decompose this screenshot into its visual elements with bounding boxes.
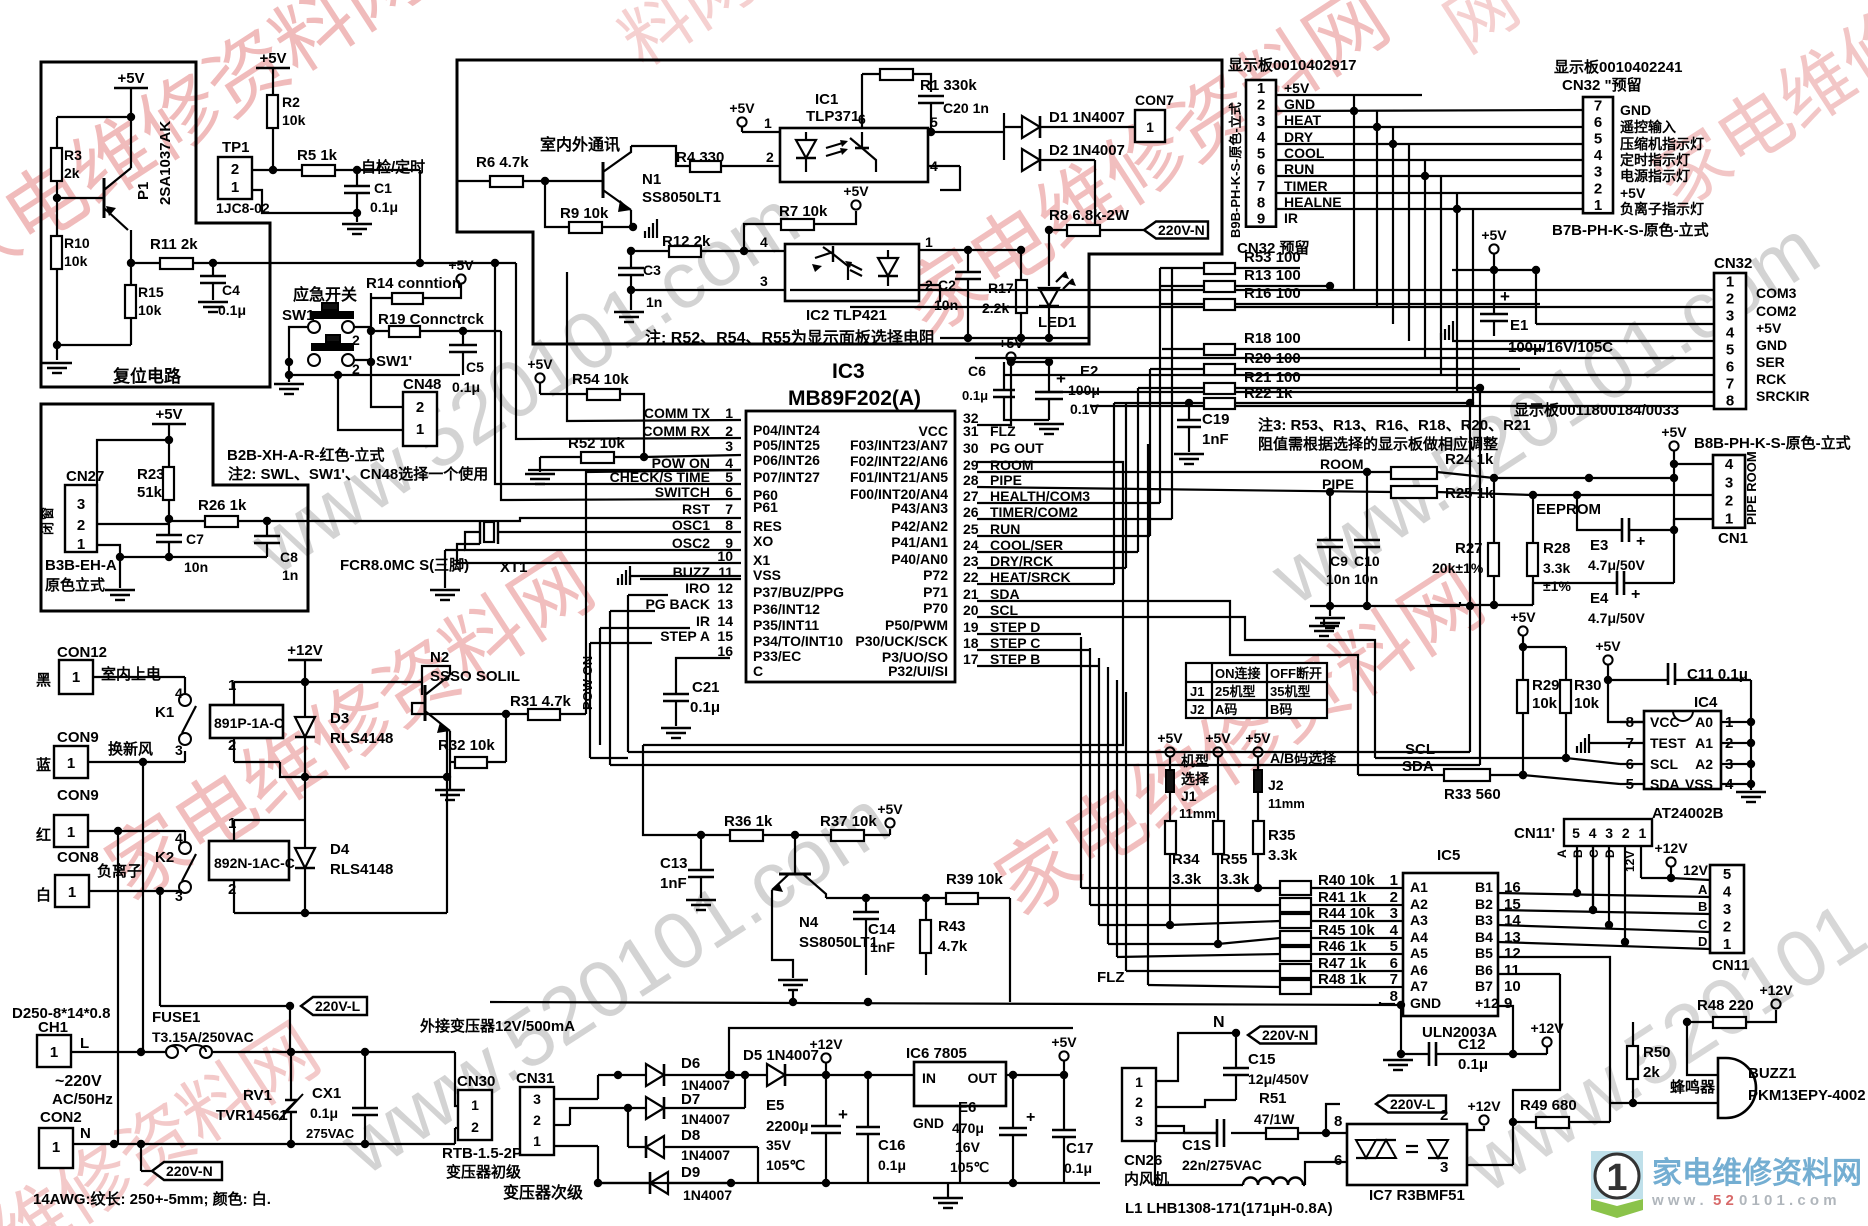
wire CN32 rows [790,289,1714,291]
resistor R1 330k [862,73,880,75]
svg-text:P40/AN0: P40/AN0 [891,551,948,567]
svg-text:J2: J2 [1190,702,1204,717]
svg-text:25: 25 [963,521,979,537]
inductor L1 [1154,1141,1156,1185]
svg-text:IC2 TLP421: IC2 TLP421 [806,307,887,324]
svg-text:CN30: CN30 [457,1073,495,1090]
svg-text:P43/AN3: P43/AN3 [891,500,948,516]
buzzer BUZZ1 [1718,1058,1756,1118]
svg-text:AT24002B: AT24002B [1652,805,1724,822]
crystal XT1 [479,520,481,544]
logo site [1591,1151,1643,1199]
svg-text:FUSE1: FUSE1 [152,1009,200,1026]
power +5V (VCC) [1006,352,1015,361]
svg-text:A: A [1698,882,1708,897]
wire R41 feed [1090,904,1280,906]
svg-text:2: 2 [725,423,733,439]
wire N row [73,1143,455,1145]
wire B2 row [1498,910,1710,914]
svg-text:+5V: +5V [1620,185,1646,201]
comm block outline [457,60,1222,344]
svg-text:220V-L: 220V-L [1390,1096,1436,1112]
svg-text:RUN: RUN [990,521,1020,537]
svg-text:P72: P72 [923,567,948,583]
svg-text:6: 6 [1334,1152,1342,1169]
wire emitter [130,230,132,285]
svg-text:2: 2 [231,161,239,178]
svg-text:3: 3 [1594,164,1602,181]
svg-text:10n: 10n [184,559,208,575]
svg-text:+5V: +5V [259,50,286,67]
resistor R18 100 [1204,344,1235,355]
svg-text:3.3k: 3.3k [1543,560,1570,576]
svg-text:28: 28 [963,472,979,488]
svg-text:AC/50Hz: AC/50Hz [52,1091,113,1108]
wire N2 emitter to gnd [449,731,451,762]
svg-text:1: 1 [1257,80,1265,97]
diode D9 1N4007 [650,1172,668,1194]
svg-text:220V-N: 220V-N [1158,222,1205,238]
svg-text:STEP D: STEP D [990,619,1040,635]
svg-text:A1: A1 [1695,735,1713,751]
svg-text:1: 1 [1135,1074,1143,1090]
resistor R34 3.3k [1165,821,1176,854]
svg-text:8: 8 [725,517,733,533]
svg-text:CON2: CON2 [40,1109,82,1126]
svg-text:R7 10k: R7 10k [779,203,828,220]
resistor R21 100 [1204,383,1235,394]
svg-text:D9: D9 [681,1164,700,1181]
svg-text:3: 3 [1605,825,1613,841]
svg-text:R51: R51 [1259,1090,1287,1107]
svg-text:显示板0010402241: 显示板0010402241 [1554,58,1682,76]
svg-text:GND: GND [1620,102,1651,118]
svg-text:R30: R30 [1574,677,1602,694]
svg-text:R20 100: R20 100 [1244,350,1301,367]
resistor R33 560 [1444,769,1490,781]
svg-text:0.1μ: 0.1μ [962,388,988,403]
svg-text:1: 1 [1146,119,1154,135]
wire R49 to triac [1467,1164,1513,1166]
svg-text:3: 3 [1726,308,1734,325]
power +5V (R14) [456,274,465,283]
wire L row [71,1051,166,1053]
svg-text:11: 11 [718,564,733,580]
svg-text:0 1 0 1 . c o m: 0 1 0 1 . c o m [1739,1192,1837,1209]
svg-text:R10: R10 [64,235,90,251]
resistor R15 [125,285,136,318]
svg-text:1: 1 [50,1044,58,1061]
svg-text:892N-1AC-C: 892N-1AC-C [214,855,295,871]
svg-text:2: 2 [1723,919,1731,936]
connector B9B (9pin) [1246,80,1276,227]
svg-text:9: 9 [1257,211,1265,228]
svg-text:220V-N: 220V-N [166,1163,213,1179]
wire loop D [610,764,1480,766]
wire R3 top rail [57,116,131,118]
svg-text:R28: R28 [1543,540,1571,557]
svg-text:4: 4 [1390,922,1399,939]
svg-text:7: 7 [1257,178,1265,195]
svg-text:1N4007: 1N4007 [681,1111,730,1127]
svg-text:23: 23 [963,553,979,569]
svg-text:B5: B5 [1475,945,1493,961]
svg-text:275VAC: 275VAC [306,1126,355,1141]
wire E1 row [1452,269,1536,271]
svg-text:RLS4148: RLS4148 [330,861,393,878]
wire +12V rail right [305,681,422,683]
svg-text:L: L [80,1035,89,1052]
svg-text:4: 4 [1589,825,1597,841]
wire B4 row [1498,942,1710,949]
svg-text:3: 3 [77,496,85,513]
svg-text:B: B [1698,899,1707,914]
wire PIPE row [977,487,1391,492]
svg-text:IN: IN [922,1070,936,1086]
svg-text:SS8050LT1: SS8050LT1 [642,189,721,206]
pin4 wire IC1 [928,165,960,167]
power +5V (CN1) [1669,441,1678,450]
svg-text:2: 2 [77,517,85,534]
svg-text:F03/INT23/AN7: F03/INT23/AN7 [850,437,948,453]
wire CON8 [89,890,182,892]
ground (C19) [1174,453,1204,455]
svg-text:GND: GND [913,1115,944,1131]
power +5V (J2) [1253,747,1262,756]
svg-text:STEP A: STEP A [660,628,710,644]
capacitor C2 [967,250,969,272]
capacitor C7 [168,524,170,535]
wire RST long [267,518,741,521]
svg-text:13: 13 [717,596,733,612]
svg-text:R13 100: R13 100 [1244,267,1301,284]
svg-text:IC6 7805: IC6 7805 [906,1045,967,1062]
svg-text:R48 1k: R48 1k [1318,971,1367,988]
ground (main) [1400,1005,1402,1058]
svg-text:R54 10k: R54 10k [572,371,629,388]
svg-text:P71: P71 [923,584,948,600]
svg-text:C13: C13 [660,855,688,872]
svg-text:6: 6 [1594,114,1602,131]
svg-text:220V-L: 220V-L [315,998,361,1014]
svg-text:IC1: IC1 [815,91,838,108]
svg-text:1: 1 [471,1097,479,1113]
wire OSC2 [465,532,741,550]
wire CN48 pin1 [338,375,403,430]
wire IC6 out [1006,1074,1064,1076]
ground (XT1) [445,549,465,551]
svg-text:220V-N: 220V-N [1262,1027,1309,1043]
power +12V (relays) [288,659,322,662]
svg-text:100μ: 100μ [1068,382,1100,398]
svg-text:0.1μ: 0.1μ [310,1105,338,1121]
wire COMM RX [516,263,741,439]
svg-text:SDA: SDA [990,586,1020,602]
wire buzzer bottom [1610,1102,1718,1104]
svg-text:C1: C1 [374,180,392,196]
svg-text:IRO: IRO [685,580,710,596]
svg-text:ROOM: ROOM [1320,456,1364,472]
diode D1 1N4007 [1004,126,1022,128]
svg-text:P30/UCK/SCK: P30/UCK/SCK [855,633,948,649]
svg-text:显示板0011800184/0033: 显示板0011800184/0033 [1514,401,1679,419]
svg-text:P61: P61 [753,499,778,515]
svg-text:CN11': CN11' [1514,825,1555,842]
svg-text:E5: E5 [766,1097,784,1114]
wire CON9r [88,830,185,832]
svg-text:4.7μ/50V: 4.7μ/50V [1588,557,1645,573]
svg-text:R6 4.7k: R6 4.7k [476,154,529,171]
svg-text:SDA: SDA [1402,758,1434,775]
svg-text:18: 18 [963,635,979,651]
svg-text:+: + [1026,1109,1035,1126]
wire R46 feed [1117,954,1280,957]
wire R55 top [1217,757,1219,821]
svg-text:P07/INT27: P07/INT27 [753,469,820,485]
svg-text:R29: R29 [1532,677,1560,694]
diode D6 1N4007 [618,1074,646,1076]
svg-text:B4: B4 [1475,929,1493,945]
svg-text:T3.15A/250VAC: T3.15A/250VAC [152,1029,254,1045]
svg-text:w w w .: w w w . [1651,1192,1704,1209]
diode D2 1N4007 [1022,149,1040,171]
svg-text:35机型: 35机型 [1270,684,1310,699]
svg-text:C1S: C1S [1182,1137,1211,1154]
svg-text:7: 7 [1390,971,1398,988]
svg-text:19: 19 [963,619,979,635]
svg-text:11mm: 11mm [1179,806,1216,821]
svg-text:4: 4 [1726,325,1735,342]
svg-text:4: 4 [760,234,768,250]
wire loop B [643,745,701,835]
resistor R25 1k [1391,486,1437,498]
svg-text:A2: A2 [1695,756,1713,772]
svg-text:+: + [1056,369,1066,388]
svg-text:B: B [1571,849,1585,858]
wire bottom gnd rail [598,1182,1100,1184]
svg-text:J1: J1 [1190,684,1204,699]
bars symbol (E1) [1440,333,1442,340]
svg-text:R16 100: R16 100 [1244,285,1301,302]
capacitor C1S [1155,1132,1217,1134]
resistor R35 3.3k [1253,821,1264,854]
svg-text:HEALNE: HEALNE [1284,194,1342,210]
svg-text:14: 14 [717,613,733,629]
svg-text:22: 22 [963,569,979,585]
power +5V (out) [1059,1051,1068,1060]
svg-text:5: 5 [1594,131,1602,148]
tag 220V-N (cn26) [1248,1027,1316,1044]
svg-text:+5V: +5V [155,406,182,423]
svg-text:L1 LHB1308-171(171μH-0.8A): L1 LHB1308-171(171μH-0.8A) [1125,1200,1333,1217]
svg-text:14AWG:纹长: 250+-5mm; 颜色: 白.: 14AWG:纹长: 250+-5mm; 颜色: 白. [33,1190,271,1208]
power +5V (R29 R30) [1518,626,1527,635]
svg-text:自检/定时: 自检/定时 [361,158,425,176]
power +12V (IC7) [1479,1115,1488,1124]
power +5V (E1) [1489,244,1498,253]
svg-text:2: 2 [416,399,424,416]
capacitor C8 [266,521,268,536]
svg-text:+12V: +12V [1530,1020,1564,1036]
svg-text:A4: A4 [1410,929,1428,945]
B3B block outline [41,404,308,611]
svg-text:10n: 10n [934,297,958,313]
svg-text:X1: X1 [753,552,770,568]
svg-text:22n/275VAC: 22n/275VAC [1182,1157,1262,1173]
svg-text:3: 3 [1390,905,1398,922]
resistor R13 100 [1204,281,1235,292]
capacitor C13 [700,835,702,870]
svg-text:B7: B7 [1475,978,1493,994]
svg-text:1n: 1n [282,567,298,583]
svg-text:12: 12 [1504,945,1521,962]
svg-text:0.1μ: 0.1μ [1064,1160,1092,1176]
svg-text:1: 1 [67,824,75,841]
svg-text:3: 3 [1440,1159,1448,1176]
svg-text:J1: J1 [1181,788,1197,804]
svg-text:+12V: +12V [1759,982,1793,998]
svg-text:N1: N1 [642,171,661,188]
svg-text:P05/INT25: P05/INT25 [753,437,820,453]
svg-text:选择: 选择 [1181,771,1210,787]
svg-text:5: 5 [1572,825,1580,841]
svg-text:CN11: CN11 [1712,957,1750,974]
svg-text:B2: B2 [1475,896,1493,912]
svg-text:C19: C19 [1202,411,1230,428]
svg-text:R53 100: R53 100 [1244,249,1301,266]
power +5V (IC4) [1603,655,1612,664]
svg-text:+: + [1631,586,1640,603]
wire R27 R28 bottom [1430,604,1533,606]
wire pin1 row to R17 [968,249,1021,251]
svg-text:C4: C4 [222,282,240,298]
power +5V (reset) [114,87,148,90]
wire C1 node to check [357,169,420,171]
svg-text:5: 5 [1723,866,1731,883]
svg-text:C21: C21 [692,679,720,696]
wire relay2 top [234,819,305,821]
svg-text:CN32: CN32 [1714,255,1752,272]
wire pin16 to C21 [676,658,730,694]
wire CN26 pin3 C1S [1156,1126,1184,1133]
svg-text:3: 3 [725,438,733,454]
svg-text:1: 1 [67,755,75,772]
svg-text:PG OUT: PG OUT [990,440,1044,456]
svg-text:B3B-EH-A: B3B-EH-A [45,557,117,574]
ground (reset) [42,362,72,364]
svg-text:TEST: TEST [1650,735,1686,751]
svg-text:P70: P70 [923,600,948,616]
svg-text:2k: 2k [1643,1064,1660,1081]
svg-text:+: + [838,1105,848,1124]
svg-text:+5V: +5V [843,183,869,199]
svg-text:+12: +12 [1475,995,1499,1011]
svg-text:R1 330k: R1 330k [920,77,977,94]
wire N1 emitter [630,210,632,227]
svg-text:D5 1N4007: D5 1N4007 [743,1047,819,1064]
svg-text:P50/PWM: P50/PWM [885,617,948,633]
resistor R53 100 [1204,263,1235,274]
power +5V (R37) [885,818,894,827]
diode D3 RLS4148 [304,682,306,717]
svg-text:4: 4 [1594,147,1603,164]
connector CN1 [1713,455,1745,528]
wire SW1 bottom [289,374,460,376]
svg-text:5: 5 [930,114,938,130]
svg-text:ROOM: ROOM [990,457,1034,473]
svg-text:OSC2: OSC2 [672,535,710,551]
wire main gnd rail [490,1002,1401,1005]
svg-text:0.1μ: 0.1μ [690,699,720,716]
diode D7 1N4007 [646,1097,664,1119]
capacitor C15 [1235,1033,1237,1068]
svg-text:R32 10k: R32 10k [438,737,495,754]
svg-text:压缩机指示灯: 压缩机指示灯 [1620,136,1704,152]
svg-text:7: 7 [725,501,733,517]
power +5V (CN27) [152,423,186,426]
wire relay1 bottom [234,761,280,763]
svg-text:家电维修资料网: 家电维修资料网 [1652,1157,1862,1190]
svg-text:C7: C7 [186,531,204,547]
resistor R43 4.7k [925,898,927,920]
svg-text:R2: R2 [282,94,300,110]
ground (step area) [1309,625,1339,627]
svg-text:显示板0010402917: 显示板0010402917 [1228,56,1356,74]
svg-text:SCL: SCL [1650,756,1678,772]
capacitor C14 [865,898,867,912]
wire bus rows to B7B [1276,110,1583,111]
svg-text:C: C [1698,917,1708,932]
svg-text:注: R52、R54、R55为显示面板选择电阻: 注: R52、R54、R55为显示面板选择电阻 [645,328,935,347]
wire CN26 pin2 [1156,1100,1236,1107]
capacitor C3 [630,251,632,268]
svg-text:CN31: CN31 [516,1070,554,1087]
svg-text:R14 conntion: R14 conntion [366,275,461,292]
svg-text:PKM13EPY-4002: PKM13EPY-4002 [1748,1087,1866,1104]
svg-text:1: 1 [925,234,933,250]
optotriac IC7 R3BMF51 [1347,1124,1467,1185]
svg-text:2k: 2k [64,165,80,181]
svg-text:4: 4 [930,158,938,174]
svg-text:R41 1k: R41 1k [1318,889,1367,906]
svg-text:A5: A5 [1410,945,1428,961]
svg-text:B8B-PH-K-S-原色-立式: B8B-PH-K-S-原色-立式 [1694,434,1851,452]
svg-text:1nF: 1nF [1202,431,1229,448]
svg-text:5: 5 [1257,145,1265,162]
svg-text:机型: 机型 [1181,753,1209,769]
svg-text:2: 2 [1440,1107,1448,1124]
svg-text:电源指示灯: 电源指示灯 [1620,168,1690,184]
wire CN48 pin2 [371,362,403,407]
svg-text:CN1: CN1 [1718,530,1748,547]
svg-text:CN48: CN48 [403,376,441,393]
svg-text:1: 1 [1639,825,1647,841]
svg-text:31: 31 [963,423,979,439]
bars symbol (TEST) [1576,746,1578,753]
svg-text:SW1: SW1 [282,307,315,324]
svg-text:R39 10k: R39 10k [946,871,1003,888]
wire CN26 pin1 to N [1156,1033,1236,1081]
svg-text:6: 6 [1390,955,1398,972]
svg-text:+5V: +5V [1756,320,1782,336]
svg-text:POW ON: POW ON [580,656,595,710]
resistor R24 1k [1391,467,1437,479]
junction dots (display bus) [1373,123,1381,131]
wire D8 out [664,1146,758,1148]
svg-text:3: 3 [175,742,183,758]
wire CN11p legs2 [1592,846,1594,910]
wire SW1 right rail [354,326,371,328]
